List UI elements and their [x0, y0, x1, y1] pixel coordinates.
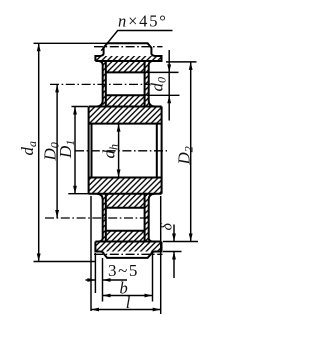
web right hole-mouth edge (bottom) — [144, 194, 146, 242]
extension line: l right — [160, 196, 162, 314]
dimension 3~5 tails — [86, 279, 128, 281]
bore chamfer edge right — [156, 124, 158, 178]
dimension line l — [91, 309, 161, 311]
web hole bottom edge (top hole) — [106, 94, 145, 96]
3~5 arrows (outside, pointing inward) — [87, 278, 95, 282]
extension line: l left — [90, 196, 92, 311]
d_a arrows — [37, 43, 41, 51]
svg-text:δ: δ — [159, 223, 176, 231]
web left hole-mouth edge (bottom) — [105, 194, 107, 242]
extension line: D_1 bottom — [68, 193, 94, 195]
arrowheads — [37, 43, 193, 311]
svg-text:D2: D2 — [175, 146, 196, 165]
svg-text:d0: d0 — [148, 77, 169, 92]
dimension line D_1 — [74, 107, 76, 194]
bore bottom line — [89, 177, 162, 179]
dimension line b — [103, 295, 153, 297]
dimension line d_a — [38, 43, 40, 261]
dimension line delta (two tails) — [173, 225, 175, 279]
extension line: 3~5 right — [102, 258, 104, 302]
hatch: top rim band + top web column (section material) — [95, 56, 161, 107]
svg-text:l: l — [126, 293, 131, 312]
bottom tooth profile — [95, 242, 161, 258]
hub right face — [161, 107, 163, 194]
gear axis centerline — [75, 150, 167, 152]
svg-text:3~5: 3~5 — [108, 261, 139, 280]
svg-text:dh: dh — [100, 144, 121, 159]
extension line: hole bottom (d_0) — [147, 94, 180, 96]
web left outer face (bottom) with fillets — [97, 194, 103, 242]
centerlines (dash-dot) — [45, 47, 167, 255]
dimension line D_0 — [56, 84, 58, 218]
hub left face — [88, 107, 90, 194]
extension line: D_2 top — [166, 61, 197, 63]
d_h arrows — [117, 124, 121, 132]
extension line: tip top (to d_a) — [34, 42, 108, 44]
extension line: tooth-side right — [152, 253, 154, 302]
D_0 arrows — [55, 84, 59, 92]
dimension & extension lines — [34, 31, 199, 315]
hatch: hub bottom wall — [89, 178, 162, 194]
l arrows — [91, 308, 99, 312]
top tooth profile: rim faces, shoulders, flanks, chamfers, tip — [95, 43, 161, 62]
pitch line (bottom tooth) — [94, 253, 163, 255]
D_2 arrows — [189, 62, 193, 70]
d_0 arrows (outside, pointing inward) — [167, 64, 171, 72]
dimension line d_h — [118, 124, 120, 178]
dimension line d_0 — [168, 50, 170, 121]
b arrows — [103, 294, 111, 298]
D_1 arrows — [73, 107, 77, 115]
web left hole-mouth edge (top) — [105, 61, 107, 107]
svg-text:n×45°: n×45° — [118, 12, 168, 31]
pitch line (top tooth) — [94, 46, 163, 48]
delta arrows (outside, pointing inward) — [172, 234, 176, 242]
web right hole-mouth edge (top) — [144, 61, 146, 107]
leader line n x 45 (chamfer extended) — [101, 31, 172, 51]
top web-hole centerline / D0 extension — [50, 83, 150, 85]
extension line: root bottom (delta) — [163, 251, 182, 253]
web left outer face (top) with fillets — [97, 61, 103, 107]
dimension line D_2 — [190, 62, 192, 242]
extension line: hole top (d_0) — [147, 71, 179, 73]
bore chamfer edge left — [91, 124, 93, 178]
bottom web-hole centerline / D0 extension — [45, 217, 150, 219]
web hole bottom edge (bottom hole) — [106, 230, 145, 232]
extension line: d_a bottom — [34, 261, 97, 263]
extension line: D_2 bottom — [163, 241, 198, 243]
extension line: D_1 top — [72, 106, 89, 108]
hatch: bottom web column + bottom rim band — [95, 194, 161, 252]
web hole top edge (bottom hole) — [106, 207, 145, 209]
hub outer surface (bottom) — [89, 193, 162, 195]
web hole top edge (top hole) — [106, 71, 145, 73]
svg-text:da: da — [18, 141, 39, 156]
web right outer face (top) with fillets — [149, 61, 155, 107]
hub outer surface (top) — [89, 106, 162, 108]
extension line: 3~5 left / b left — [94, 253, 96, 293]
bore top line — [89, 123, 162, 125]
rim inner surface line (top) — [95, 60, 161, 62]
hatch: hub top wall — [89, 107, 162, 124]
web right outer face (bottom) with fillets — [149, 194, 155, 242]
rim inner surface line (bottom) — [95, 241, 161, 243]
